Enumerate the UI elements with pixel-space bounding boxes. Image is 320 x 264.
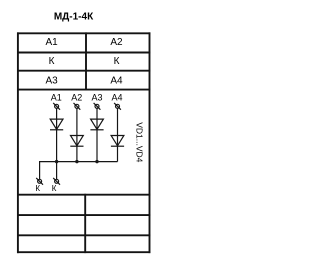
svg-text:К: К <box>52 184 57 193</box>
diode VD3 <box>90 119 103 130</box>
svg-text:А1: А1 <box>45 37 58 48</box>
bottom table grid <box>17 194 150 253</box>
wire bus to K2 <box>56 162 58 180</box>
terminal K2 <box>53 178 60 185</box>
wire A4 to bus <box>117 108 119 161</box>
junction VD3/bus <box>95 160 98 163</box>
svg-text:А4: А4 <box>110 76 123 87</box>
svg-text:А2: А2 <box>110 37 123 48</box>
junction VD2/bus <box>75 160 78 163</box>
junction VD1/bus <box>55 160 58 163</box>
svg-text:МД-1-4К: МД-1-4К <box>54 12 94 23</box>
svg-text:А3: А3 <box>91 93 102 103</box>
pinout table grid <box>17 32 150 90</box>
svg-text:К: К <box>35 184 40 193</box>
diode VD4 <box>111 136 124 147</box>
wire A2 to bus <box>76 108 78 161</box>
svg-text:А2: А2 <box>71 93 82 103</box>
terminal A1 <box>53 103 60 110</box>
diode VD1 <box>50 119 63 130</box>
svg-text:А3: А3 <box>45 76 58 87</box>
svg-text:К: К <box>49 56 55 67</box>
svg-text:А1: А1 <box>51 93 62 103</box>
svg-text:К: К <box>114 56 120 67</box>
wire A3 to bus <box>96 108 98 161</box>
wire A1 to bus <box>56 108 58 161</box>
schematic frame <box>18 32 150 253</box>
svg-text:А4: А4 <box>111 93 122 103</box>
terminal A2 <box>74 103 81 110</box>
cathode bus wire <box>40 161 118 163</box>
svg-text:VD1...VD4: VD1...VD4 <box>134 122 144 162</box>
wire bus to K1 <box>39 161 41 179</box>
diode VD2 <box>70 136 83 147</box>
terminal K1 <box>36 178 43 185</box>
terminal A3 <box>94 103 101 110</box>
terminal A4 <box>114 103 121 110</box>
